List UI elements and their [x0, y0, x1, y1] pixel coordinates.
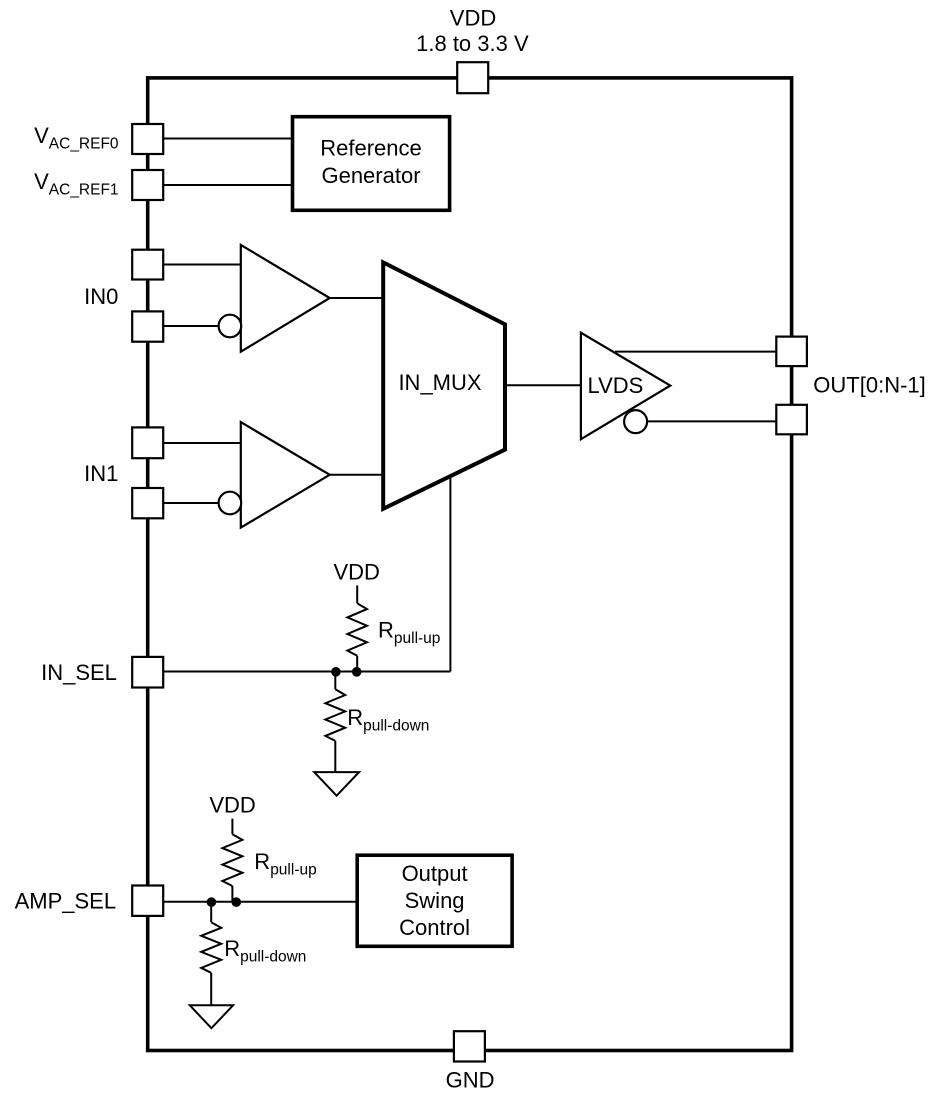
resistor Rpull-down (AMP_SEL): [201, 922, 221, 973]
svg-text:OUT[0:N-1]: OUT[0:N-1]: [813, 372, 925, 397]
wire IN_SEL select line to IN_MUX: [449, 474, 451, 672]
wire IN1 inverting input: [163, 502, 220, 504]
svg-text:Swing: Swing: [405, 888, 465, 913]
pin IN_SEL: [132, 657, 163, 688]
wire Rpull-up bottom stub (AMP_SEL): [231, 886, 233, 902]
svg-text:VDD: VDD: [209, 793, 255, 818]
pin VAC_REF0: [132, 124, 163, 154]
inversion bubble buffer1: [219, 315, 242, 338]
wire AMP_SEL net horizontal: [163, 901, 359, 903]
svg-text:IN_MUX: IN_MUX: [398, 370, 481, 395]
resistor Rpull-down (IN_SEL): [325, 689, 345, 741]
block Output Swing Control: [357, 855, 512, 946]
pin IN1 noninverting: [132, 427, 163, 458]
svg-text:IN1: IN1: [84, 461, 118, 486]
svg-text:IN_SEL: IN_SEL: [41, 660, 117, 685]
junction dot AMP_SEL pull-down: [207, 897, 217, 907]
svg-text:LVDS: LVDS: [588, 373, 644, 398]
svg-text:VDD: VDD: [333, 560, 379, 585]
wire IN1 noninverting input: [163, 442, 242, 444]
pin GND: [454, 1031, 485, 1061]
svg-text:1.8 to 3.3 V: 1.8 to 3.3 V: [416, 31, 529, 56]
resistor Rpull-up (IN_SEL): [347, 603, 367, 655]
pin OUT noninverted: [776, 337, 807, 367]
wire LVDS inverted output to OUT pin: [646, 420, 777, 422]
svg-text:Reference: Reference: [320, 136, 422, 161]
wire IN_MUX output to LVDS driver: [504, 384, 582, 386]
svg-text:AMP_SEL: AMP_SEL: [15, 889, 117, 914]
svg-text:Generator: Generator: [321, 163, 420, 188]
svg-text:Control: Control: [399, 915, 470, 940]
wire node to Rpull-down (IN_SEL): [334, 672, 336, 690]
mux IN_MUX: [383, 262, 505, 508]
pin VAC_REF1: [132, 170, 163, 200]
junction dot IN_SEL pull-up: [352, 667, 362, 677]
svg-text:VDD: VDD: [450, 5, 496, 30]
wire IN_SEL net horizontal: [163, 671, 450, 673]
wire VDD stub above Rpull-up (IN_SEL): [356, 585, 358, 603]
wire LVDS noninverted output to OUT pin: [615, 351, 777, 353]
junction dot AMP_SEL pull-up: [232, 897, 242, 907]
LVDS output driver: [581, 333, 670, 440]
svg-text:GND: GND: [446, 1068, 495, 1093]
wire VAC_REF1 to Reference Generator: [163, 184, 294, 186]
pin IN1 inverting: [132, 488, 163, 518]
pin VDD: [457, 62, 488, 93]
pin IN0 noninverting: [132, 250, 163, 280]
wire Rpull-down to ground (AMP_SEL): [210, 973, 212, 1006]
wire IN0 noninverting input: [163, 264, 242, 266]
inversion bubble LVDS: [624, 410, 647, 433]
pin OUT inverted: [776, 405, 807, 435]
ground symbol (IN_SEL): [314, 772, 359, 796]
block Reference Generator: [293, 117, 450, 211]
svg-text:IN0: IN0: [84, 284, 118, 309]
ground symbol (AMP_SEL): [190, 1005, 233, 1028]
wire Rpull-up bottom stub (IN_SEL): [356, 656, 358, 672]
wire VDD stub above Rpull-up (AMP_SEL): [231, 819, 233, 835]
inversion bubble buffer2: [219, 492, 242, 515]
chip boundary: [148, 78, 792, 1051]
buffer amplifier for IN1: [241, 422, 330, 527]
resistor Rpull-up (AMP_SEL): [222, 834, 242, 886]
wire buffer1 output to IN_MUX: [329, 297, 384, 299]
wire IN0 inverting input: [163, 325, 220, 327]
pin IN0 inverting: [132, 311, 163, 341]
wire buffer2 output to IN_MUX: [329, 474, 384, 476]
pin AMP_SEL: [132, 886, 163, 916]
junction dot IN_SEL pull-down: [331, 667, 341, 677]
wire node to Rpull-down (AMP_SEL): [210, 902, 212, 922]
wire VAC_REF0 to Reference Generator: [163, 138, 294, 140]
svg-text:Output: Output: [402, 861, 468, 886]
buffer amplifier for IN0: [241, 245, 330, 352]
wire Rpull-down to ground (IN_SEL): [334, 741, 336, 772]
